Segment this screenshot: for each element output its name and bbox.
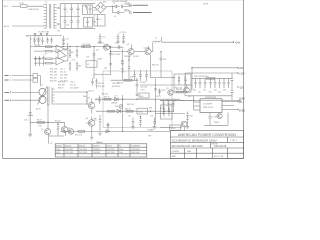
wire relay to bus [38,76,41,87]
vertical line mid [93,47,95,79]
resistor R33 [108,110,115,112]
svg-text:DWG NO: DWG NO [212,144,219,146]
capacitor C4 [70,17,73,29]
capacitor C34 plus [154,89,157,91]
capacitor CY4 with ground [122,34,125,44]
svg-text:R26 1.2K: R26 1.2K [58,82,66,84]
U4 pin right 2 [222,105,234,107]
svg-text:R51 2.2: R51 2.2 [98,83,104,85]
isolation box [103,71,172,128]
resistor R46 vertical [178,76,180,86]
resistor R29 vertical [96,79,98,89]
U4 pin right 3 [222,109,238,111]
svg-text:R52 100: R52 100 [98,86,104,88]
transistor Q7 [88,102,95,109]
svg-text:N/A: N/A [187,150,191,153]
svg-text:Q8: Q8 [86,118,88,120]
svg-text:PWR GOOD: PWR GOOD [203,107,214,109]
transistor Q10 [184,87,190,93]
wire u2 out [93,55,95,61]
capacitor C23 ticks [109,63,112,65]
EMI mid bus [60,16,80,18]
title block divider row4 b [196,148,198,158]
svg-text:C46: C46 [223,90,226,92]
wire L2 stub [161,37,163,41]
vertical bus x122 [122,95,124,131]
label out B [237,72,239,74]
svg-text:+12V: +12V [239,73,245,75]
svg-text:R15 220: R15 220 [50,77,56,79]
svg-text:1.0K 1/2W: 1.0K 1/2W [79,149,87,151]
transistor Q11 [181,121,187,127]
svg-text:R42: R42 [190,116,193,118]
capacitor CB5 [214,78,217,88]
op-amp U1A [56,45,65,53]
U4 pin right 1 [222,101,238,103]
svg-text:PG: PG [239,102,243,104]
wire vert x185 [184,73,186,96]
capacitor C35 [158,89,160,96]
svg-text:R44: R44 [149,107,152,109]
title block outline [170,131,243,159]
svg-text:CN-FAN: CN-FAN [147,129,154,132]
resistor R50 on wire [78,131,85,133]
resistor R1 vertical [86,5,88,14]
wire cap bank bottom bus [192,95,232,97]
resistor R4 [46,58,53,60]
svg-text:2.2K 1/2W: 2.2K 1/2W [79,152,87,154]
svg-text:L1: L1 [45,2,47,4]
svg-text:Q1: Q1 [41,129,43,131]
capacitor C37 [184,76,187,86]
title block divider row4 a [184,148,186,158]
svg-text:ECO#-10: ECO#-10 [214,156,224,158]
capacitor C22 ticks [109,53,112,55]
resistor R40 vertical [168,100,170,112]
resistor RB1 horizontal [207,77,215,79]
capacitor C21 [119,45,124,49]
node x161 [160,51,161,52]
vertical bus left [29,36,31,128]
inductor L2 [153,41,162,42]
title block divider drawing number cell [210,142,212,148]
resistor R36 in inner box [163,107,165,117]
svg-text:.1: .1 [66,12,67,14]
wire N hook to T1 [12,99,39,101]
svg-text:R34 1K: R34 1K [125,108,132,110]
table column line 3 [91,144,93,157]
wire relay in top [10,75,34,77]
border left [2,0,4,158]
wire y77.5 [151,77,175,79]
svg-text:D2: D2 [114,16,116,18]
capacitor CB3 [204,78,207,88]
label gnd right [239,100,241,102]
snubber box [174,74,191,92]
table row line 1 [55,146,147,148]
svg-text:C14 .1: C14 .1 [60,68,65,70]
svg-text:TL431: TL431 [138,111,143,113]
svg-text:2SC3039: 2SC3039 [124,56,131,58]
rectifier sub box [94,15,105,27]
svg-text:Q3: Q3 [127,44,129,46]
svg-text:1 OF 1: 1 OF 1 [230,140,237,142]
label u4 out1 [237,101,239,103]
svg-text:+24V: +24V [235,43,241,45]
resistor R6 vertical [34,56,36,66]
node secondary top [86,91,87,92]
svg-text:Q10: Q10 [188,96,191,98]
op-amp U1B [56,57,65,65]
wire AC line [12,5,20,7]
svg-text:CN-AC/JP-AC: CN-AC/JP-AC [28,8,39,11]
svg-text:CY3 CY4: CY3 CY4 [119,32,126,34]
wire bottom long [60,130,170,132]
svg-text:C39: C39 [163,59,166,61]
svg-text:C36 .1: C36 .1 [141,90,146,92]
svg-text:RT1: RT1 [94,10,97,12]
svg-text:+ C50: + C50 [212,117,217,119]
node dot bus d [83,46,84,47]
resistor R17 vertical [69,49,71,59]
wire switch row [111,51,129,53]
wire choke out bottom [57,24,61,28]
relay K1 contact a [33,74,38,78]
svg-text:R16 47K: R16 47K [50,80,57,82]
stub parts before q12 [64,130,69,133]
node dot bus f [103,46,104,47]
table column line 2 [77,144,79,157]
node dot secbus [193,100,194,101]
svg-text:Q4 2SC: Q4 2SC [144,47,151,49]
svg-text:T1 RATING: T1 RATING [131,145,140,148]
transistor Q3 switch [128,49,134,55]
label u4 out3 [237,109,239,111]
capacitor C20 mid [93,54,96,56]
svg-text:5VSB: 5VSB [239,110,245,112]
wire q7 connections [87,98,92,114]
vertical line x110 [110,47,112,75]
transistor Q8 [88,120,95,127]
capacitor C11 [37,37,39,45]
resistor R31 [124,79,132,81]
svg-text:R10: R10 [39,125,42,127]
varistor RV1 [34,33,36,36]
svg-text:MODEL: MODEL [56,146,62,148]
wire L hook to T1 [12,91,39,93]
svg-text:Q6: Q6 [96,50,98,52]
svg-text:D3: D3 [115,96,117,98]
resistor R9 vertical [57,123,59,136]
svg-text:BR1: BR1 [103,1,106,3]
svg-text:R30 220: R30 220 [102,94,108,96]
ground under R42 [186,122,190,129]
svg-text:CY1: CY1 [66,39,69,41]
EMI top bus [60,3,95,5]
svg-text:1N4148: 1N4148 [111,102,117,104]
svg-text:+310: +310 [124,4,130,6]
resistor R39 vertical [163,100,165,112]
choke L1 left winding [45,4,47,29]
wire T1 secondary bottom [55,103,87,105]
table column line 5 [117,144,119,157]
node sb3 [181,100,182,101]
table column line 4 [105,144,107,157]
svg-text:230V 50HZ: 230V 50HZ [131,152,140,154]
capacitor CB1 [194,78,197,88]
svg-text:R17: R17 [71,52,74,54]
svg-text:C32 1000P: C32 1000P [70,88,79,90]
wire secondary junction vertical [86,92,88,104]
resistor chain x129 [128,55,130,80]
svg-text:R12 4.7K: R12 4.7K [50,68,58,70]
diode D5 on wire [106,130,109,133]
svg-text:C28 .01: C28 .01 [88,90,94,92]
capacitor CY2 with ground [98,34,101,44]
resistor R7b vertical [42,56,44,66]
svg-text:EE-25: EE-25 [36,109,41,111]
wire below u4 [204,113,228,126]
transistor Q1 [45,129,51,135]
wire base drive [30,121,48,123]
svg-text:Q9: Q9 [166,88,168,90]
REF label box [139,93,149,98]
wire stub y95.8 left [185,95,192,97]
wire feedback A [96,98,180,100]
T1 diagonal stroke [38,87,48,105]
svg-text:C21: C21 [115,43,118,45]
label PS-N [5,79,9,81]
svg-text:C41: C41 [198,91,201,93]
wire q2 vertical [65,122,66,136]
resistor R18 vertical [76,49,78,59]
title block divider row4 c [212,148,214,158]
wire bridge left to EMI [93,7,96,9]
svg-text:REV 0: REV 0 [171,128,176,130]
svg-text:R14 1.0K: R14 1.0K [50,74,58,76]
resistor R20 vertical [76,62,78,72]
label +310VDC [130,3,132,7]
node choke outputs [58,7,59,8]
capacitor C28 [91,79,93,86]
wire q6 to part [110,46,123,48]
wire q11 em [160,126,184,131]
capacitor CY1 with ground [62,36,65,46]
resistor R30 vertical [99,96,101,104]
node sb2 [174,100,175,101]
node q link [47,122,48,123]
svg-text:C22 1000P: C22 1000P [112,54,121,56]
svg-text:1.0K 1/2W: 1.0K 1/2W [65,149,73,151]
svg-text:C43: C43 [209,91,212,93]
wire bottom link x94 x110 [94,74,111,76]
svg-text:R9 220: R9 220 [55,120,61,122]
ground under c27 [135,95,138,97]
wire bus y100 extension [192,99,240,101]
svg-text:+: + [151,87,152,89]
wire choke out top [57,4,61,8]
svg-text:R47 C38: R47 C38 [175,88,182,90]
capacitor CY3 with ground [116,34,119,44]
svg-text:JP1: JP1 [57,31,60,33]
svg-text:+: + [140,72,141,74]
svg-text:T1: T1 [41,85,43,87]
svg-text:C51: C51 [128,115,131,117]
capacitor CB6 [218,78,221,88]
capacitor C14 [50,37,52,44]
table column line 6 [129,144,131,157]
svg-text:C15 .01: C15 .01 [60,71,66,73]
wire q1 q2 link [49,135,64,137]
svg-text:100/10: 100/10 [214,122,219,124]
node bridge out [112,6,113,7]
transistor Q13 below U4 [217,113,222,118]
thermistor box TH1 [83,5,93,15]
resistor R3 [46,50,53,52]
IC U2 box [86,61,97,67]
capacitor CB8 [227,78,230,88]
label +24V [233,41,235,43]
node dot bus e [93,46,94,47]
capacitor C3 [70,4,73,17]
label mid right [237,86,239,88]
wire feedback B [96,110,174,112]
svg-text:C10 C11 .1: C10 C11 .1 [34,35,42,37]
varistor RV3 [46,33,48,36]
capacitor C2 [64,17,67,29]
svg-text:COM: COM [239,99,244,101]
resistor R32 [104,98,111,100]
node fb a [122,99,123,100]
wire to HV label top [126,5,133,6]
svg-text:R48 100: R48 100 [152,65,158,67]
vertical bus x155 [155,79,157,126]
node r31 [136,80,137,81]
resistor R19 vertical [69,62,71,72]
border top faint [3,0,244,1]
wire q8 connections [86,116,92,131]
inner box right [161,105,173,119]
svg-text:C9: C9 [100,19,102,21]
svg-text:-12V: -12V [239,87,244,89]
fuse F1 [21,5,28,8]
node bus c [76,46,77,47]
vertical line x150 [150,55,152,78]
capacitor C33 gnd [98,115,102,135]
svg-text:U4 LM339: U4 LM339 [203,104,213,106]
capacitor C50 below U4 [208,113,211,126]
resistor R38 horizontal [176,91,184,93]
svg-text:VR1: VR1 [115,106,118,108]
title block row line 4 [170,152,243,154]
svg-text:R32 10: R32 10 [104,97,110,99]
svg-text:R21 220K: R21 220K [83,44,91,46]
resistor R34 [126,110,133,112]
capacitor C10 [33,37,35,45]
svg-text:640-041: 640-041 [79,146,85,148]
parts list text rows [50,68,68,82]
svg-text:Q6 C945: Q6 C945 [97,43,104,45]
table row line 3 [55,153,147,155]
svg-text:1/13/94: 1/13/94 [172,151,180,153]
svg-text:CN-PWR CN-PWR: CN-PWR CN-PWR [112,1,128,3]
table outline [55,144,147,157]
choke L1 right winding [53,4,55,29]
svg-text:640-040/640-041 VER 9400: 640-040/640-041 VER 9400 [172,145,204,148]
transistor Q5 driver [58,50,66,60]
wire fuse to choke [27,5,44,7]
wire row y80 [111,79,138,81]
resistor R37 in inner box [168,107,170,117]
svg-text:R10/R11: R10/R11 [93,146,100,148]
svg-text:JP2: JP2 [104,68,107,70]
node bus a [62,46,63,47]
IC U4 box [200,99,222,113]
svg-text:.1: .1 [73,12,74,14]
main bus horizontal [30,46,110,48]
table column line 1 [63,144,65,157]
svg-text:CX1: CX1 [93,22,96,24]
vline x122 upper [121,49,124,80]
label out A [237,67,239,69]
resistor R8 [38,121,45,123]
wire op-amp U1A out [65,43,68,49]
svg-text:R50 4.7K: R50 4.7K [75,135,83,137]
wire op-amp U1B out [65,47,68,61]
table cell texts [56,145,140,155]
diode D2 [116,11,124,14]
capacitor C1 [64,4,67,17]
transformer T1 primary winding a [39,88,46,95]
capacitor C26 plus [145,70,148,81]
svg-text:NOTE: NOTE [203,4,209,6]
wire relay in bottom [10,79,34,81]
svg-text:220/250V: 220/250V [93,152,101,154]
U4 pin left 1 [194,101,201,103]
capacitor C9 top rail [118,5,127,8]
transistor Q9 [168,90,174,96]
EMI vertical bus [59,4,61,29]
title block row line 1 [170,136,243,138]
node dot y113 [163,113,164,114]
extra value labels scatter [24,16,219,127]
U4 pin left 3 [194,109,201,111]
svg-text:+5V: +5V [239,68,244,70]
secondary bus y100 [160,99,192,101]
wire AC neutral [12,25,44,27]
wire main output 24V [162,41,234,43]
svg-text:R28 47: R28 47 [58,88,64,90]
node dot y131 [122,131,123,132]
extra text cluster q7 area [98,83,120,88]
svg-text:R45 10K: R45 10K [141,87,148,89]
capacitor C12 [41,37,43,45]
capacitor C27 [136,78,139,95]
transformer T1 secondary [52,88,55,105]
node sb1 [167,100,168,101]
node secondary bottom [86,103,87,104]
capacitor C19 on bus [27,113,33,128]
svg-text:CN-JP5 JP-A5: CN-JP5 JP-A5 [38,30,49,33]
node dot mid a [110,51,111,52]
svg-text:C31 .01: C31 .01 [70,85,76,87]
value text rows x121 [121,61,125,74]
transistor Q4 switch [145,49,151,55]
resistor R5 [46,62,53,64]
svg-text:C16 100P: C16 100P [60,74,68,76]
node fb b [122,111,123,112]
svg-text:U2: U2 [87,64,89,66]
